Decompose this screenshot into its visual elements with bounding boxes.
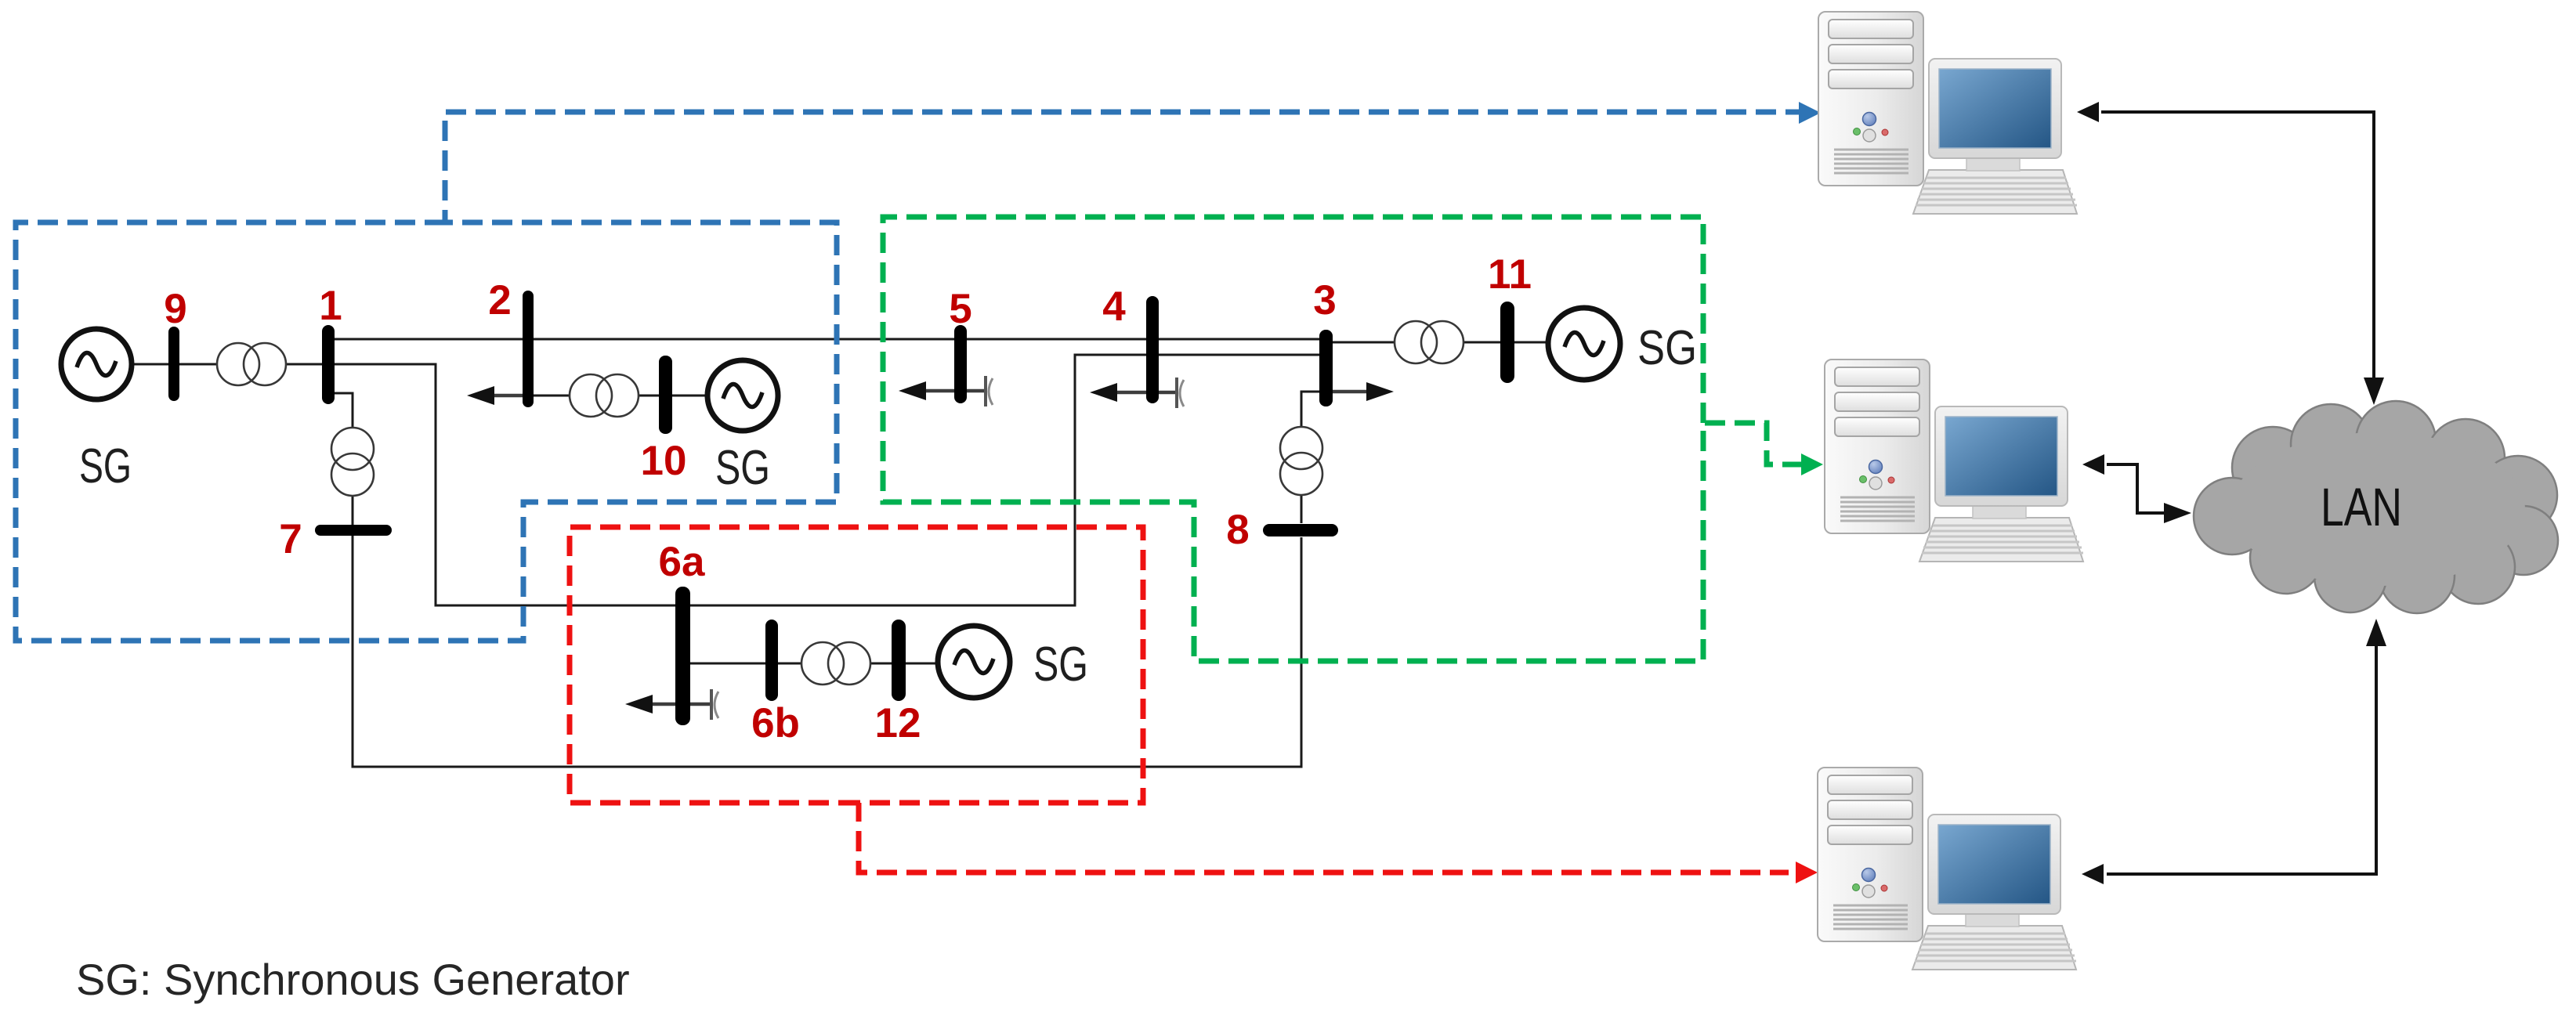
wire: bus3 right to transformer T3, bus 11, SG3 xyxy=(1333,341,1551,344)
transformer T5 (bus1-bus7, vertical) xyxy=(331,428,374,496)
wire: bus7 down, across bottom, up to bus8 xyxy=(353,536,1301,767)
zone box: blue dashed (area 1) xyxy=(16,112,1799,641)
svg-text:4: 4 xyxy=(1102,284,1126,330)
svg-text:SG: SG xyxy=(79,439,132,493)
computer 1 (workstation) xyxy=(1818,12,2077,214)
bus 7 (horizontal) xyxy=(315,525,392,536)
bus 2 xyxy=(523,291,534,407)
bus 9 xyxy=(168,327,179,401)
load arrow + breaker at bus 5 xyxy=(899,376,993,406)
bus 6b xyxy=(765,620,778,701)
bus 8 (horizontal) xyxy=(1263,524,1338,536)
black link LAN to computer 3 xyxy=(2082,619,2386,884)
svg-text:6b: 6b xyxy=(751,700,800,746)
wire: generator SG1 line to bus 1 (y=465) xyxy=(94,363,322,366)
black link LAN to computer 2 xyxy=(2082,454,2191,523)
bus 4 xyxy=(1146,296,1159,403)
svg-text:9: 9 xyxy=(164,286,186,332)
svg-text:2: 2 xyxy=(488,277,511,323)
computer 2 (workstation) xyxy=(1825,359,2083,562)
wire: line A bus1 to bus3 (y=433) xyxy=(328,338,1326,341)
wire: line B bus1 - bus6a - bus4 - bus3 xyxy=(335,355,1326,605)
generator SG3 xyxy=(1548,308,1620,380)
generator SG2 xyxy=(707,360,778,431)
svg-text:11: 11 xyxy=(1488,251,1532,298)
bus 1 xyxy=(322,325,335,404)
svg-text:SG: SG xyxy=(1637,321,1697,375)
svg-text:6a: 6a xyxy=(659,539,705,585)
bus 11 xyxy=(1500,302,1514,383)
bus 3 xyxy=(1319,330,1333,406)
zone box: red dashed (area 3) xyxy=(570,527,1789,872)
transformer T6 (bus3-bus8, vertical) xyxy=(1280,427,1322,495)
red arrow into computer 3 xyxy=(1796,862,1818,883)
svg-text:7: 7 xyxy=(279,516,302,562)
transformer T1 (bus9-bus1) xyxy=(217,343,286,385)
transformer T4 (bus6b-bus12) xyxy=(801,642,870,685)
generator SG4 xyxy=(938,626,1010,698)
svg-text:SG: Synchronous Generator: SG: Synchronous Generator xyxy=(76,955,630,1004)
bus 5 xyxy=(954,325,967,403)
black link LAN to computer 1 xyxy=(2077,102,2384,405)
svg-text:12: 12 xyxy=(875,700,921,746)
svg-text:SG: SG xyxy=(715,441,770,495)
svg-text:1: 1 xyxy=(319,283,342,329)
bus 6a xyxy=(675,587,690,725)
svg-text:8: 8 xyxy=(1226,507,1249,553)
bus 10 xyxy=(659,356,672,434)
blue arrow into computer 1 xyxy=(1799,102,1821,124)
load arrow at bus 2 xyxy=(467,386,523,405)
svg-text:3: 3 xyxy=(1313,277,1336,323)
load arrow (right) at bus 3 xyxy=(1333,382,1394,401)
load arrow + breaker at bus 4 xyxy=(1090,378,1184,408)
zone box: green dashed (area 2) xyxy=(883,217,1802,661)
wire: bus2 right to transformer T2, bus 10, SG2 xyxy=(534,395,711,397)
generator SG1 xyxy=(61,329,132,399)
transformer T3 (bus3-bus11) xyxy=(1395,321,1463,363)
green arrow into computer 2 xyxy=(1801,453,1823,475)
wire: bus1 down to transformer T5 to bus 7 xyxy=(335,393,353,525)
svg-text:10: 10 xyxy=(641,438,687,484)
svg-text:LAN: LAN xyxy=(2321,477,2402,537)
wire: bus8 up through transformer T6 to bus3 xyxy=(1301,392,1319,523)
wire: bus6a right to bus6b, transformer T4, bus12, SG4 xyxy=(689,663,940,665)
transformer T2 (bus2-bus10) xyxy=(570,374,639,417)
load arrow + breaker at bus 6a xyxy=(625,689,718,720)
svg-text:SG: SG xyxy=(1033,638,1088,692)
LAN cloud xyxy=(2194,401,2558,613)
bus 12 xyxy=(892,620,906,701)
svg-text:5: 5 xyxy=(949,286,971,332)
computer 3 (workstation) xyxy=(1818,768,2076,970)
